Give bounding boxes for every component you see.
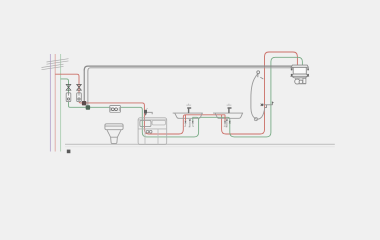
cold pipe basin1 to basin2 to right riser and heater [199, 57, 303, 137]
cold main run (meter to kitchen drop) [69, 102, 199, 137]
heater side lugs [291, 68, 309, 76]
water heater body [291, 65, 308, 78]
water meter cold [66, 93, 71, 102]
filter on cold line [110, 106, 121, 113]
shower handset holder circle [254, 118, 257, 121]
hot pipe through valve to meter [78, 83, 80, 102]
legend square [67, 150, 71, 154]
riser cold (green) [60, 54, 62, 152]
heater pipe A riser (outer gray) [83, 70, 85, 102]
heater burner box [296, 78, 299, 80]
shower mixer lever [272, 102, 273, 105]
heater pipe A horizontal run to heater [84, 66, 293, 70]
tee fitting on hot line [82, 101, 86, 105]
shutoff valve hot [77, 85, 82, 91]
shower head [257, 71, 260, 74]
basin 1 hot angle valve [184, 115, 186, 127]
shower hose [251, 74, 265, 119]
shower mixer bar [261, 104, 272, 106]
basin 2 faucet [227, 104, 232, 114]
heater pump circle [295, 79, 300, 84]
cold branch pipe from riser [61, 79, 69, 83]
wash basin 2 rim [213, 112, 243, 114]
floor shadow line [65, 146, 335, 148]
tee fitting on cold line [86, 105, 90, 109]
floor line [65, 143, 335, 145]
shower mixer valve cross [261, 104, 263, 106]
hot pipe basin2 drop to right riser and heater [222, 52, 298, 134]
heater pipe B riser (inner gray) [87, 70, 89, 105]
shower hose stub [265, 105, 267, 108]
wash basin 1 tub [175, 113, 203, 118]
riser (purple) [49, 54, 51, 152]
heater bottom line [296, 83, 306, 85]
basin 1 cold angle valve [192, 117, 194, 126]
basin 1 faucet [186, 104, 191, 114]
basin 2 drain [226, 120, 228, 127]
heater pipe B horizontal run to heater [88, 68, 293, 71]
wash basin 2 tub [215, 113, 243, 118]
basin 2 hot angle valve [224, 115, 226, 127]
kitchen faucet [144, 108, 152, 114]
heater valve block [303, 78, 306, 83]
shutoff valve cold [66, 85, 71, 91]
riser break slashes [42, 59, 69, 70]
hot main run (meter to kitchen drop, along wall) [79, 102, 225, 135]
hot branch pipe from riser [55, 74, 79, 83]
basin 1 drain [189, 120, 191, 127]
shower bracket [260, 77, 263, 79]
water meter hot [77, 93, 82, 102]
toilet [105, 124, 123, 144]
basin 2 cold angle valve [229, 121, 231, 123]
kitchen mixer body [145, 113, 147, 115]
kitchen sink cabinet [138, 118, 167, 145]
riser hot (red) [54, 54, 56, 152]
wash basin 1 rim [173, 112, 203, 114]
heater small circle [299, 80, 303, 84]
cold pipe through valve to meter [68, 83, 70, 102]
